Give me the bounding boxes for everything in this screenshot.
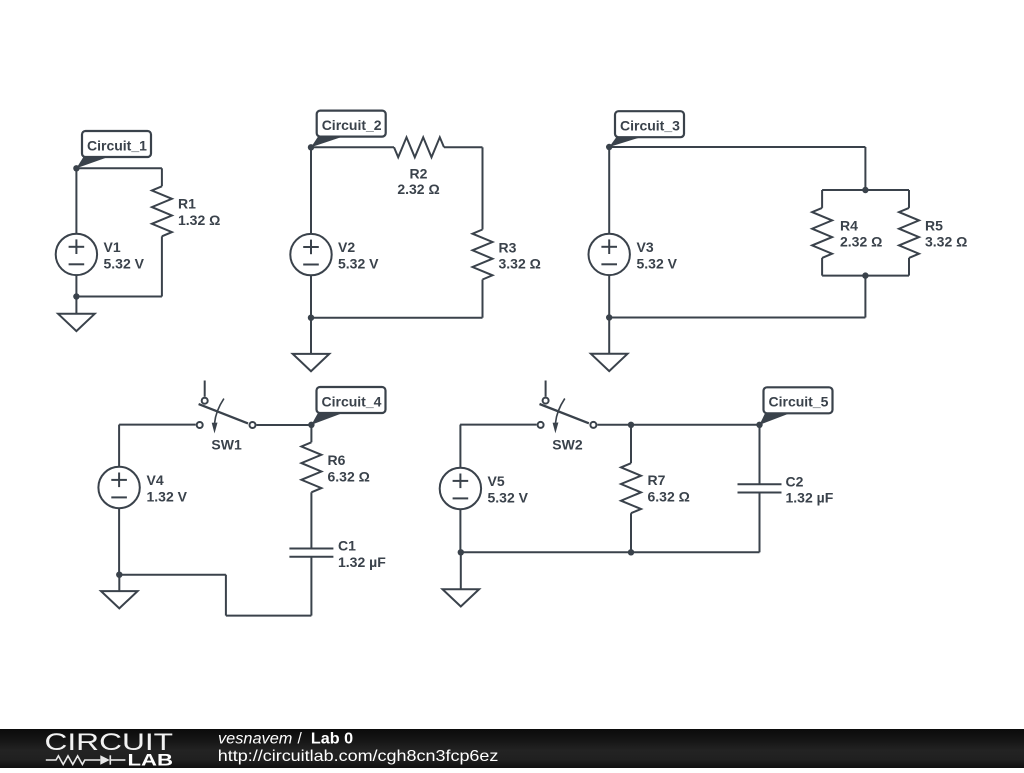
node Circuit_5 <box>756 422 762 428</box>
svg-text:Circuit_3: Circuit_3 <box>620 118 680 134</box>
node flag Circuit_4 <box>311 387 385 425</box>
svg-text:Circuit_5: Circuit_5 <box>769 394 829 410</box>
resistor R6 <box>301 442 321 492</box>
wire parallel top bar <box>822 189 909 191</box>
svg-text:1.32 µF: 1.32 µF <box>786 490 834 506</box>
value label R6 6.32 &#937; <box>328 452 370 484</box>
node Circuit_2 <box>308 144 314 150</box>
voltage source V1 <box>56 234 97 275</box>
wire C2 top lead <box>759 425 761 485</box>
value label V3 5.32 V <box>637 239 678 271</box>
node flag Circuit_2 <box>311 111 386 148</box>
value label R5 3.32 &#937; <box>925 217 967 249</box>
wire V5 bottom lead <box>459 509 461 552</box>
ground <box>101 575 138 609</box>
wire SW2 to node <box>597 424 759 426</box>
ground <box>591 318 628 372</box>
svg-text:V2: V2 <box>338 239 355 255</box>
voltage source V5 <box>440 468 481 509</box>
svg-text:V3: V3 <box>637 239 654 255</box>
resistor R4 <box>812 208 832 258</box>
wire V1 top lead <box>75 168 77 233</box>
wire C2 bottom lead <box>759 493 761 553</box>
svg-text:5.32 V: 5.32 V <box>104 255 145 271</box>
svg-text:R1: R1 <box>178 196 196 212</box>
svg-text:Circuit_4: Circuit_4 <box>322 393 382 409</box>
wire R5 bottom lead <box>908 258 910 276</box>
wire V5+ to SW2 <box>460 424 536 426</box>
svg-text:Circuit_1: Circuit_1 <box>87 137 147 153</box>
svg-text:2.32 Ω: 2.32 Ω <box>840 234 882 250</box>
wire V4+ to SW1 <box>119 424 196 426</box>
CircuitLab logo resistor-diode glyph <box>46 755 126 764</box>
svg-text:vesnavem: vesnavem <box>218 731 292 748</box>
wire V3 bottom lead <box>608 275 610 317</box>
svg-text:5.32 V: 5.32 V <box>338 256 379 272</box>
node flag Circuit_1 <box>76 131 151 168</box>
capacitor C2 <box>738 484 782 492</box>
wire bottom <box>76 296 161 298</box>
svg-text:3.32 Ω: 3.32 Ω <box>925 234 967 250</box>
svg-text:SW2: SW2 <box>552 436 583 452</box>
value label V1 5.32 V <box>104 239 145 271</box>
ground <box>293 318 330 372</box>
resistor R3 <box>473 230 493 280</box>
svg-text:R6: R6 <box>328 452 346 468</box>
wire bottom <box>461 551 760 553</box>
value label C1 1.32 &#181;F <box>338 538 386 570</box>
svg-text:R3: R3 <box>499 239 517 255</box>
junction (V3- / ground) <box>606 314 612 320</box>
value label V4 1.32 V <box>147 472 188 504</box>
svg-text:SW1: SW1 <box>211 437 242 453</box>
wire bottom left <box>119 574 226 576</box>
ground <box>443 552 480 606</box>
wire bottom right <box>226 615 312 617</box>
wire V5 top lead <box>459 425 461 468</box>
junction (R4/R5 top) <box>862 187 868 193</box>
svg-text:Circuit_2: Circuit_2 <box>322 117 382 133</box>
junction (R4/R5 bottom) <box>862 272 868 278</box>
value label R3 3.32 &#937; <box>499 239 541 271</box>
wire R3 bottom lead <box>482 280 484 318</box>
wire bottom riser <box>225 575 227 616</box>
svg-text:6.32 Ω: 6.32 Ω <box>328 468 370 484</box>
wire V4 top lead <box>118 425 120 467</box>
svg-text:/: / <box>298 731 303 748</box>
wire V4 bottom lead <box>118 508 120 574</box>
voltage source V2 <box>290 234 331 275</box>
svg-text:C1: C1 <box>338 538 356 554</box>
svg-text:R2: R2 <box>410 165 428 181</box>
svg-text:Lab 0: Lab 0 <box>311 731 353 748</box>
junction (V2- / ground) <box>308 315 314 321</box>
resistor R7 <box>621 463 641 513</box>
resistor R2 <box>394 137 444 157</box>
wire top right <box>444 146 483 148</box>
wire R7 top lead <box>630 425 632 463</box>
wire V3 top lead <box>608 147 610 234</box>
svg-text:3.32 Ω: 3.32 Ω <box>499 256 541 272</box>
resistor R1 <box>152 186 172 236</box>
svg-text:1.32 V: 1.32 V <box>147 489 188 505</box>
svg-text:1.32 µF: 1.32 µF <box>338 554 386 570</box>
wire R1 top lead <box>161 168 163 186</box>
wire parallel bottom bar <box>822 275 909 277</box>
wire R6 to C1 <box>310 492 312 548</box>
wire right down <box>864 276 866 318</box>
junction (R7 bottom) <box>628 549 634 555</box>
wire SW1 to node <box>257 424 312 426</box>
value label V2 5.32 V <box>338 239 379 271</box>
wire R4 top lead <box>821 190 823 208</box>
wire top <box>609 146 865 148</box>
svg-text:1.32 Ω: 1.32 Ω <box>178 212 220 228</box>
wire top left <box>311 146 394 148</box>
node Circuit_4 <box>308 422 314 428</box>
switch SW2 <box>538 381 597 434</box>
svg-text:V5: V5 <box>488 473 505 489</box>
wire C1 bottom lead <box>310 557 312 616</box>
resistor R5 <box>899 208 919 258</box>
wire R5 top lead <box>908 190 910 208</box>
svg-text:R5: R5 <box>925 217 943 233</box>
wire V2 bottom lead <box>310 275 312 317</box>
node flag Circuit_3 <box>609 111 684 147</box>
svg-text:http://circuitlab.com/cgh8cn3f: http://circuitlab.com/cgh8cn3fcp6ez <box>218 748 499 765</box>
svg-text:LAB: LAB <box>128 752 174 768</box>
voltage source V4 <box>98 467 139 508</box>
svg-text:6.32 Ω: 6.32 Ω <box>648 489 690 505</box>
wire R7 bottom lead <box>630 513 632 552</box>
svg-text:C2: C2 <box>786 473 804 489</box>
wire V1 bottom lead <box>75 275 77 296</box>
wire bottom <box>609 317 865 319</box>
value label R4 2.32 &#937; <box>840 217 882 249</box>
wire R4 bottom lead <box>821 258 823 276</box>
wire R6 top lead <box>310 425 312 443</box>
svg-text:2.32 Ω: 2.32 Ω <box>397 181 439 197</box>
node Circuit_1 <box>73 165 79 171</box>
node flag Circuit_5 <box>760 387 833 425</box>
wire to parallel pair <box>864 147 866 190</box>
voltage source V3 <box>589 234 630 275</box>
junction (V4- / ground) <box>116 572 122 578</box>
svg-text:5.32 V: 5.32 V <box>637 255 678 271</box>
svg-text:V4: V4 <box>147 472 164 488</box>
wire V2 top lead <box>310 147 312 234</box>
svg-text:R7: R7 <box>648 472 666 488</box>
ground <box>58 297 95 332</box>
svg-text:5.32 V: 5.32 V <box>488 490 529 506</box>
value label V5 5.32 V <box>488 473 529 505</box>
node Circuit_3 <box>606 144 612 150</box>
value label C2 1.32 &#181;F <box>786 473 834 505</box>
svg-text:V1: V1 <box>104 239 121 255</box>
junction (V5- / ground) <box>458 549 464 555</box>
capacitor C1 <box>289 549 333 557</box>
value label R7 6.32 &#937; <box>648 472 690 504</box>
wire top (node to R1 branch) <box>76 167 161 169</box>
wire bottom <box>311 317 483 319</box>
wire R1 bottom lead <box>161 236 163 296</box>
switch SW1 <box>197 381 256 434</box>
value label R1 1.32 &#937; <box>178 196 220 228</box>
svg-text:R4: R4 <box>840 217 858 233</box>
junction (V1- / ground) <box>73 293 79 299</box>
junction (R7 top) <box>628 422 634 428</box>
value label R2 2.32 &#937; <box>397 165 439 197</box>
wire R3 top lead <box>482 147 484 229</box>
